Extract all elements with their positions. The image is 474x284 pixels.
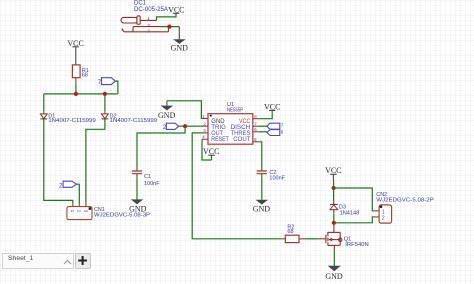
svg-text:3: 3 [83,210,88,213]
svg-text:7: 7 [281,123,284,128]
netflag VCC (below U1 at RESET) [203,147,219,160]
svg-text:D3: D3 [339,204,346,210]
wire Q1 source to GND [333,251,335,266]
connector DC1 labels [134,1,168,13]
netport 7 (at DISCH) [267,123,284,130]
wire COUT pin5 to C2 [260,142,262,168]
junction dot D3/Q1/CN2 [332,221,336,225]
capacitor C1 [132,168,160,187]
wire DISCH to netport [259,125,267,127]
wire D2 to CN1 pin3 [86,119,105,204]
wire VCC node to CN2 pin1 [334,188,374,211]
DC1 pin 2 hook arrowhead [121,29,123,31]
svg-text:1: 1 [382,210,385,216]
svg-text:2: 2 [382,216,385,222]
wire C2 to GND [261,177,263,199]
svg-text:C1: C1 [144,174,151,180]
svg-text:DC-005-25A: DC-005-25A [134,7,168,13]
wire VCC node to D3 [333,188,335,202]
netflag VCC (top, at DC1) [168,5,184,14]
svg-text:GND: GND [158,111,176,120]
netport 7 (at bus) [98,78,116,87]
netflag VCC (top right of U1) [264,102,280,113]
svg-text:6: 6 [281,129,284,134]
junction dot VCC/D3/CN2 [332,186,336,190]
netflag VCC (above R1) [67,39,83,65]
wire horizontal bus [44,93,118,95]
svg-text:3: 3 [147,23,150,29]
svg-text:RESET: RESET [211,136,229,143]
svg-text:GND: GND [325,272,343,281]
wire bus to D1 [43,94,45,112]
svg-text:100nF: 100nF [269,175,285,181]
ground GND (left of U1) [158,101,176,120]
capacitor C2 [257,168,286,182]
wire netport2 to CN1 pin2 [76,184,79,203]
netflag VCC (above D3) [325,166,341,179]
wire D3 to drain node [333,213,335,223]
wire R1 to bus [75,85,77,94]
svg-text:NE555P: NE555P [227,108,243,114]
svg-text:GND: GND [171,43,189,52]
wire netport7 to bus [115,81,118,94]
diode D2 [102,114,158,125]
svg-text:2: 2 [147,29,150,35]
wire pin3/pin2 to GND node [161,27,179,32]
diode D3 [330,202,359,217]
U1 pin stubs [202,119,260,142]
connector DC1 barrel jack symbol [121,16,169,32]
ground GND (below Q1) [325,266,343,281]
junction dot TRIG node [183,124,187,128]
wire drain node to CN2 pin2 [334,217,374,223]
svg-text:1: 1 [147,16,150,22]
U1 pin numbers [202,114,257,142]
junction dot R1/bus [74,92,78,96]
svg-text:COUT: COUT [233,136,250,143]
ground GND (below C2) [253,200,271,214]
svg-text:1: 1 [70,210,75,213]
wire RESET to VCC [202,139,212,160]
svg-text:GND: GND [129,205,147,214]
op-amp U1 NE555P body [208,114,253,145]
netport 6 (at THRES) [267,129,284,135]
wire TRIG node to C1 [137,126,185,168]
add sheet button [75,253,91,269]
svg-text:GND: GND [253,205,271,214]
resistor R1 [72,65,88,79]
junction dot D2/bus [103,92,107,96]
connector CN2 [374,192,434,223]
wire pin1 to VCC [157,13,177,20]
wire VCC to node [333,180,335,189]
svg-text:2: 2 [77,210,82,213]
wire OUT to R2 [192,133,282,239]
svg-text:1N4148: 1N4148 [340,211,360,217]
DC1 pin numbers 1 3 2 [147,16,150,34]
resistor R2 [282,224,305,242]
svg-text:68: 68 [287,229,293,235]
diode D1 [40,114,95,125]
junction dot at DC1 ground node [167,25,171,29]
wire D1 to CN1 pin1 [44,119,73,204]
svg-text:DC1: DC1 [134,1,147,7]
wire R2 to Q1 gate [304,238,318,240]
wire THRES to netport [259,131,267,133]
sheet tab bar [2,253,74,269]
svg-text:IRF540N: IRF540N [345,242,368,248]
wire C1 to GND [136,177,138,199]
netport 2 (at CN1) [59,181,76,189]
svg-text:68: 68 [82,73,88,79]
wire netport2 to TRIG [179,125,203,127]
op-amp U1 NE555P labels [227,102,243,113]
ground GND (at DC1) [171,27,189,53]
wire VCC to U1 pin8 [259,113,272,119]
wire bus to D2 [104,94,106,112]
svg-text:WJ2EDGVC-5.08-2P: WJ2EDGVC-5.08-2P [376,197,434,203]
netport 2 (at TRIG) [163,123,179,131]
Q1 arrow [328,238,332,242]
svg-text:1N4007-C115999: 1N4007-C115999 [48,118,96,124]
connector CN1 [67,204,150,220]
svg-text:1N4007-C115999: 1N4007-C115999 [110,118,158,124]
ground GND (below C1) [129,199,147,213]
wire GND to U1 pin1 [167,101,202,119]
svg-text:100nF: 100nF [144,181,160,187]
transistor Q1 IRF540N [318,223,342,251]
